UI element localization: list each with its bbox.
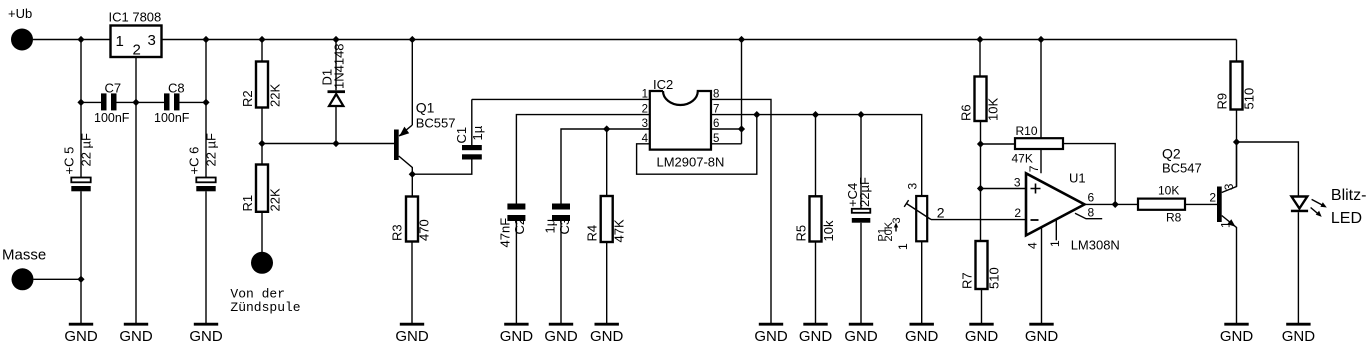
ground GND 11	[905, 324, 939, 345]
svg-text:3: 3	[1222, 183, 1236, 190]
node junction pin7 line / C4	[857, 111, 864, 118]
svg-text:1: 1	[642, 89, 648, 101]
capacitor C6 electrolytic	[187, 133, 219, 191]
svg-text:3: 3	[1014, 176, 1021, 190]
svg-text:47K: 47K	[612, 219, 627, 242]
capacitor C8	[154, 81, 190, 126]
svg-text:10K: 10K	[1158, 184, 1179, 198]
svg-text:GND: GND	[1282, 328, 1316, 345]
ground GND 10	[844, 324, 878, 345]
node junction rail/R6	[976, 36, 983, 43]
ground GND 8	[754, 324, 788, 345]
wire op-amp output	[1085, 203, 1139, 205]
node junction R9/LED branch	[1233, 138, 1240, 145]
svg-text:510: 510	[1242, 88, 1257, 110]
svg-text:+Ub: +Ub	[8, 6, 32, 21]
transistor Q2 BC547	[1162, 142, 1237, 323]
wire C6 bottom to ground	[205, 191, 207, 323]
svg-text:IC2: IC2	[653, 77, 673, 92]
svg-text:LED: LED	[1331, 210, 1362, 227]
node junction D1 bottom	[332, 140, 339, 147]
node Von der Zündspule terminal	[230, 252, 300, 315]
ground GND 1	[64, 324, 98, 345]
svg-text:GND: GND	[64, 328, 98, 345]
node junction Q1 collector / R3 / C1	[409, 171, 416, 178]
svg-text:1: 1	[116, 33, 124, 50]
svg-text:GND: GND	[799, 328, 833, 345]
wire 100nF line segments	[81, 101, 206, 103]
ground GND 7	[590, 324, 624, 345]
capacitor C7	[94, 81, 130, 126]
resistor R8	[1138, 184, 1217, 225]
diode D1 1N4148	[320, 40, 347, 144]
svg-text:47K: 47K	[1012, 152, 1033, 166]
ground GND 6	[544, 324, 578, 345]
svg-text:GND: GND	[965, 328, 999, 345]
svg-text:3: 3	[148, 32, 156, 49]
node junction pin7 line / R5	[812, 111, 819, 118]
svg-text:5: 5	[713, 133, 719, 145]
svg-text:Masse: Masse	[2, 247, 46, 264]
wire IC2 pin8 to ground	[711, 99, 771, 323]
svg-text:22 µF: 22 µF	[204, 133, 219, 167]
svg-text:3: 3	[891, 217, 903, 223]
wire C6 branch vertical	[205, 40, 207, 178]
capacitor C5 electrolytic	[62, 133, 94, 191]
svg-text:R6: R6	[959, 104, 974, 121]
resistor R4	[585, 129, 627, 323]
wire LED branch	[1237, 142, 1299, 197]
node junction C8/C6	[202, 99, 209, 106]
svg-text:47nF: 47nF	[498, 218, 513, 248]
capacitor C4 electrolytic	[845, 115, 872, 323]
wire IC1 pin2 line to ground	[135, 102, 137, 323]
svg-text:R10: R10	[1016, 124, 1038, 138]
wire C5 bottom to Masse line	[80, 191, 82, 323]
svg-text:8: 8	[1088, 206, 1095, 220]
svg-text:GND: GND	[395, 328, 429, 345]
svg-text:3: 3	[642, 118, 648, 130]
svg-text:8: 8	[713, 89, 719, 101]
capacitor C2	[498, 204, 528, 324]
wire top supply rail left of IC1	[33, 39, 111, 41]
svg-text:2: 2	[937, 205, 945, 221]
potentiometer P1 20K	[876, 183, 945, 324]
ground GND 3	[189, 324, 223, 345]
svg-text:GND: GND	[905, 328, 939, 345]
svg-text:10k: 10k	[821, 220, 836, 241]
svg-text:6: 6	[1088, 191, 1095, 205]
svg-text:GND: GND	[844, 328, 878, 345]
svg-text:Zündspule: Zündspule	[230, 300, 300, 315]
svg-text:GND: GND	[500, 328, 534, 345]
svg-text:470: 470	[417, 219, 432, 241]
svg-text:510: 510	[987, 267, 1002, 289]
resistor R6	[959, 40, 1001, 242]
wire rail to IC2 pin6/pin5	[711, 40, 742, 144]
svg-text:R8: R8	[1166, 211, 1182, 225]
svg-text:BC557: BC557	[416, 116, 456, 131]
svg-text:C2: C2	[512, 218, 527, 235]
wire Masse to C5 line	[34, 278, 82, 280]
svg-text:2: 2	[1014, 206, 1021, 220]
node junction C5/C7	[77, 99, 84, 106]
resistor R7	[960, 241, 1002, 323]
svg-text:7: 7	[713, 104, 719, 116]
ground GND 15	[1282, 324, 1316, 345]
ground GND 5	[500, 324, 534, 345]
svg-text:R9: R9	[1215, 93, 1230, 110]
op-amp U1 LM308N	[1014, 165, 1120, 252]
svg-text:R4: R4	[585, 225, 600, 242]
resistor R1	[240, 144, 282, 253]
node junction R6/op-amp + input	[977, 185, 984, 192]
svg-text:4: 4	[642, 133, 649, 145]
svg-text:+C 5: +C 5	[62, 147, 77, 175]
resistor R5	[794, 115, 837, 323]
svg-text:22K: 22K	[267, 84, 282, 107]
svg-text:+C 6: +C 6	[187, 147, 202, 175]
node junction rail/C6	[202, 36, 209, 43]
resistor R9	[1215, 40, 1257, 187]
svg-text:BC547: BC547	[1162, 161, 1202, 176]
svg-text:IC1 7808: IC1 7808	[109, 10, 162, 25]
LED Blitz-LED	[1291, 187, 1367, 227]
svg-text:R7: R7	[960, 272, 975, 289]
node junction Masse/C5	[77, 276, 84, 283]
node junction rail/R2	[258, 36, 265, 43]
node junction rail/pin6 branch	[738, 36, 745, 43]
node junction pin7/pin4 loop	[753, 111, 760, 118]
svg-text:GND: GND	[754, 328, 788, 345]
svg-text:1: 1	[1048, 240, 1062, 247]
ground GND 9	[799, 324, 833, 345]
IC IC2 LM2907-8N	[642, 77, 725, 170]
svg-text:22K: 22K	[267, 188, 282, 211]
svg-text:LM2907-8N: LM2907-8N	[657, 155, 725, 170]
wire IC2 pin3 to C3 and R4	[561, 129, 650, 204]
svg-text:GND: GND	[1025, 328, 1059, 345]
IC1 7808 regulator	[109, 10, 162, 59]
svg-text:2: 2	[1209, 191, 1216, 205]
capacitor C3	[543, 204, 572, 324]
svg-text:1: 1	[1219, 221, 1233, 228]
node junction pin6	[738, 125, 745, 132]
ground GND 4	[395, 324, 429, 345]
node junction R6/R10	[977, 140, 984, 147]
transistor Q1 BC557	[394, 40, 455, 175]
svg-text:2: 2	[133, 42, 141, 59]
svg-text:1µ: 1µ	[543, 218, 558, 233]
svg-text:100nF: 100nF	[94, 111, 130, 125]
capacitor C1	[412, 99, 485, 174]
svg-text:Q1: Q1	[416, 100, 435, 116]
wire IC2 pin2 to C2	[516, 115, 649, 204]
svg-text:4: 4	[1025, 242, 1039, 249]
node junction R2/R1	[258, 140, 265, 147]
ground GND 13	[1025, 324, 1059, 345]
wire rail to U1 pin7	[1040, 40, 1042, 174]
svg-text:3: 3	[905, 183, 919, 190]
node junction rail/C5	[77, 36, 84, 43]
wire IC1 pin2 down to 100nF line	[135, 57, 137, 102]
svg-text:Blitz-: Blitz-	[1331, 187, 1367, 204]
svg-text:R5: R5	[794, 225, 809, 242]
wire U1 pin4 to ground	[1041, 227, 1043, 323]
svg-text:C1: C1	[454, 127, 469, 144]
node junction rail/D1	[332, 36, 339, 43]
svg-text:1: 1	[896, 243, 910, 250]
wire LED to ground	[1297, 212, 1299, 323]
svg-text:7: 7	[1027, 165, 1041, 172]
svg-text:100nF: 100nF	[154, 111, 190, 125]
node junction rail/U1 pin7	[1037, 36, 1044, 43]
svg-text:2: 2	[642, 104, 648, 116]
node Masse terminal	[2, 247, 46, 291]
svg-text:GND: GND	[590, 328, 624, 345]
wire IC2 pin7 line to P1	[711, 115, 922, 196]
svg-text:R2: R2	[240, 90, 255, 107]
node junction output/R10	[1112, 201, 1119, 208]
svg-text:GND: GND	[189, 328, 223, 345]
svg-text:U1: U1	[1069, 171, 1086, 186]
svg-text:Q2: Q2	[1162, 146, 1181, 162]
wire C1 to IC2 pin1	[472, 98, 650, 100]
svg-text:1µ: 1µ	[470, 125, 485, 140]
node +Ub terminal	[8, 6, 33, 51]
wire top supply rail right of IC1	[162, 39, 1237, 41]
svg-text:GND: GND	[119, 328, 153, 345]
wire base line R2 to Q1	[262, 143, 394, 145]
ground GND 2	[119, 324, 153, 345]
ground GND 14	[1220, 324, 1254, 345]
svg-text:R1: R1	[240, 195, 255, 212]
node junction IC1 pin2 / 100nF line	[132, 99, 139, 106]
svg-text:C8: C8	[168, 81, 185, 96]
wire P1 wiper to op-amp inverting input	[931, 219, 1026, 221]
svg-text:22µF: 22µF	[857, 177, 872, 207]
svg-text:22 µF: 22 µF	[79, 133, 94, 167]
svg-text:10K: 10K	[986, 98, 1001, 121]
resistor R3	[390, 174, 432, 323]
svg-text:GND: GND	[1220, 328, 1254, 345]
node junction pin3/R4	[603, 125, 610, 132]
wire C5 branch vertical	[80, 40, 82, 178]
svg-text:C7: C7	[105, 81, 122, 96]
ground GND 12	[965, 324, 999, 345]
node junction rail/Q1 emitter	[409, 36, 416, 43]
svg-text:C3: C3	[557, 218, 572, 235]
resistor R10 feedback	[981, 124, 1116, 204]
svg-text:R3: R3	[390, 224, 405, 241]
svg-text:GND: GND	[544, 328, 578, 345]
svg-text:1N4148: 1N4148	[332, 43, 347, 89]
resistor R2	[240, 40, 282, 144]
svg-text:LM308N: LM308N	[1071, 238, 1120, 253]
wire IC2 pin4 loop	[637, 115, 757, 175]
wire + input	[981, 188, 1026, 190]
